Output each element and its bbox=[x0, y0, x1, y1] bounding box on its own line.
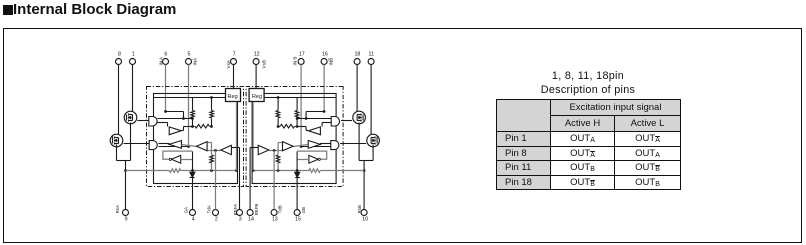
svg-text:9: 9 bbox=[125, 217, 128, 223]
svg-text:Reg: Reg bbox=[228, 94, 238, 100]
svg-text:17: 17 bbox=[299, 51, 305, 57]
svg-text:10: 10 bbox=[362, 217, 368, 223]
svg-text:2: 2 bbox=[215, 217, 218, 223]
svg-text:5: 5 bbox=[188, 51, 191, 57]
svg-text:REFA: REFA bbox=[233, 204, 238, 216]
svg-text:INĀ: INĀ bbox=[192, 57, 198, 66]
svg-text:16: 16 bbox=[322, 51, 328, 57]
svg-text:13: 13 bbox=[272, 217, 278, 223]
svg-text:RsA: RsA bbox=[115, 205, 120, 213]
svg-text:7: 7 bbox=[233, 51, 236, 57]
svg-text:8: 8 bbox=[118, 51, 121, 57]
svg-text:VsA: VsA bbox=[226, 59, 231, 68]
svg-text:12: 12 bbox=[254, 51, 260, 57]
svg-text:REFB: REFB bbox=[254, 204, 259, 216]
svg-text:Reg: Reg bbox=[252, 94, 262, 100]
svg-text:RsB: RsB bbox=[357, 205, 362, 213]
svg-text:GA: GA bbox=[183, 207, 188, 213]
svg-text:GB: GB bbox=[301, 207, 306, 213]
svg-text:VsB: VsB bbox=[262, 60, 267, 68]
svg-text:IN A: IN A bbox=[158, 56, 163, 66]
svg-text:3: 3 bbox=[239, 217, 242, 223]
svg-text:6: 6 bbox=[164, 51, 167, 57]
svg-text:TdA: TdA bbox=[207, 205, 212, 213]
svg-text:15: 15 bbox=[295, 217, 301, 223]
svg-text:4: 4 bbox=[192, 217, 195, 223]
svg-text:11: 11 bbox=[369, 51, 375, 57]
svg-text:18: 18 bbox=[354, 51, 360, 57]
svg-text:14: 14 bbox=[248, 217, 254, 223]
svg-text:1: 1 bbox=[132, 51, 135, 57]
svg-text:TdB: TdB bbox=[278, 205, 283, 213]
svg-text:INB̅: INB̅ bbox=[328, 57, 334, 65]
svg-text:IN B: IN B bbox=[293, 57, 298, 66]
